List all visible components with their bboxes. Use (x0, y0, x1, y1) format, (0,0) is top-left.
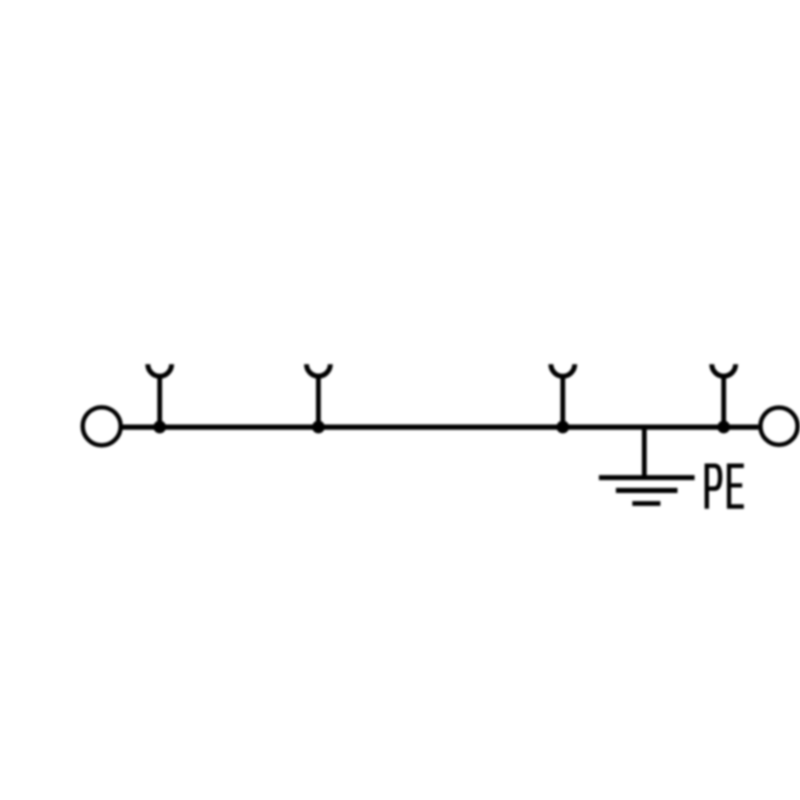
label PE (705, 464, 744, 509)
clamp contact 1 stem (157, 375, 162, 428)
junction dot 3 (556, 421, 569, 434)
junction dot 1 (153, 421, 166, 434)
junction dot 4 (717, 421, 730, 434)
clamp contact 3 cup (551, 364, 575, 376)
clamp contact 2 stem (316, 375, 321, 428)
clamp contact 2 cup (307, 364, 331, 376)
junction dot 2 (312, 421, 325, 434)
clamp contact 4 stem (721, 375, 726, 428)
ground (earth) symbol (599, 478, 695, 504)
terminal circle right (feed-through contact) (760, 408, 797, 445)
wire main PE bus (122, 425, 758, 430)
clamp contact 4 cup (712, 364, 736, 376)
ground wire (642, 427, 647, 478)
terminal circle left (feed-through contact) (83, 407, 121, 445)
clamp contact 1 cup (148, 364, 172, 376)
clamp contact 3 stem (560, 375, 565, 428)
